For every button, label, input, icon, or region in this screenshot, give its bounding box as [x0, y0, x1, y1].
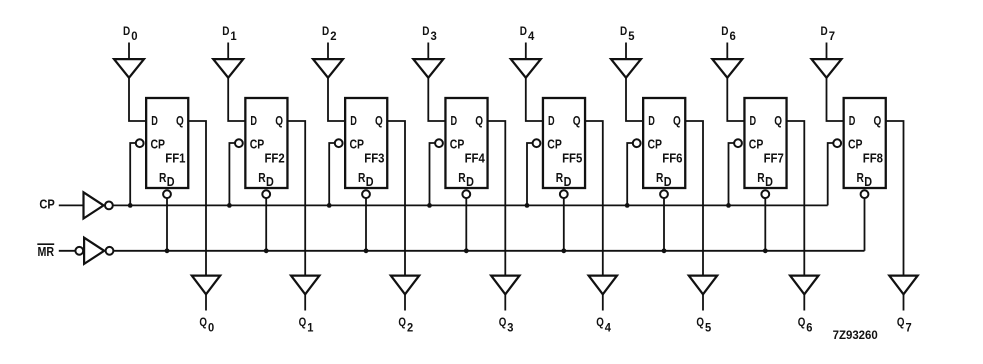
svg-text:R: R	[358, 171, 365, 185]
svg-text:CP: CP	[547, 137, 562, 151]
input buffer on D6	[712, 59, 742, 78]
wire output buffer to Q0 label	[205, 294, 207, 310]
svg-text:0: 0	[131, 31, 137, 43]
svg-text:D: D	[520, 26, 527, 38]
inversion bubble at CP pin of FF1	[136, 139, 144, 147]
wire Q pin of FF1 to output buffer	[188, 121, 206, 276]
junction CP rail / FF2	[227, 203, 232, 208]
svg-text:CP: CP	[749, 137, 764, 151]
svg-text:D: D	[664, 175, 672, 189]
inversion bubble at CP pin of FF5	[533, 139, 541, 147]
svg-text:Q: Q	[596, 317, 604, 329]
input buffer on D2	[313, 59, 343, 78]
svg-text:D: D	[250, 114, 257, 128]
svg-text:CP: CP	[648, 137, 663, 151]
svg-text:D: D	[151, 114, 158, 128]
output buffer on Q4	[589, 276, 617, 295]
wire RD pin of FF8 to MR rail	[864, 198, 866, 251]
wire CP rail to CP pin of FF2	[229, 143, 235, 205]
svg-text:D: D	[466, 175, 474, 189]
svg-text:D: D	[123, 26, 130, 38]
svg-text:Q: Q	[398, 317, 406, 329]
wire output buffer to Q1 label	[304, 294, 306, 310]
wire CP rail to CP pin of FF1	[130, 143, 136, 205]
wire CP rail to CP pin of FF3	[329, 143, 335, 205]
svg-text:FF6: FF6	[662, 151, 682, 165]
inversion bubble at RD pin of FF2	[262, 190, 270, 198]
wire CP rail to CP pin of FF8	[828, 143, 834, 205]
inversion bubble at CP pin of FF6	[633, 139, 641, 147]
output buffer on Q0	[192, 276, 220, 295]
svg-text:R: R	[857, 171, 864, 185]
wire CP rail to CP pin of FF6	[627, 143, 633, 205]
svg-text:0: 0	[208, 322, 214, 334]
input label MR (active low, overbar)	[37, 243, 54, 245]
svg-text:3: 3	[507, 322, 513, 334]
svg-text:FF4: FF4	[465, 151, 485, 165]
wire RD pin of FF1 to MR rail	[166, 198, 168, 251]
svg-text:D: D	[750, 114, 757, 128]
svg-text:R: R	[458, 171, 465, 185]
output buffer on Q3	[491, 276, 519, 295]
wire RD pin of FF6 to MR rail	[663, 198, 665, 251]
svg-text:Q: Q	[696, 317, 704, 329]
wire Q pin of FF7 to output buffer	[786, 121, 804, 276]
output buffer on Q2	[391, 276, 419, 295]
wire CP rail to CP pin of FF5	[527, 143, 533, 205]
junction CP rail / FF6	[625, 203, 630, 208]
svg-text:D: D	[821, 26, 828, 38]
svg-text:Q: Q	[176, 114, 184, 128]
wire Q pin of FF6 to output buffer	[685, 121, 703, 276]
wire input buffer to D pin of FF3	[328, 78, 346, 121]
wire Q pin of FF8 to output buffer	[886, 121, 904, 276]
wire CP input to inverter	[59, 204, 84, 206]
svg-text:Q: Q	[475, 114, 483, 128]
junction CP rail / FF7	[726, 203, 731, 208]
output buffer on Q6	[790, 276, 818, 295]
wire RD pin of FF4 to MR rail	[465, 198, 467, 251]
inversion bubble at CP pin of FF7	[734, 139, 742, 147]
svg-text:D: D	[350, 114, 357, 128]
svg-text:R: R	[258, 171, 265, 185]
output buffer on Q7	[889, 276, 917, 295]
wire D7 label to input buffer	[826, 43, 828, 60]
flip-flop FF7 outline	[744, 98, 786, 188]
inverter on CP line	[84, 192, 104, 218]
svg-text:R: R	[656, 171, 663, 185]
svg-text:Q: Q	[897, 317, 905, 329]
svg-text:CP: CP	[151, 137, 166, 151]
wire output buffer to Q4 label	[602, 294, 604, 310]
svg-text:7Z93260: 7Z93260	[833, 330, 878, 342]
junction CP rail / FF1	[128, 203, 133, 208]
wire input buffer to D pin of FF7	[727, 78, 745, 121]
junction CP rail / FF5	[525, 203, 530, 208]
flip-flop FF4 outline	[445, 98, 487, 188]
wire D2 label to input buffer	[327, 43, 329, 60]
svg-text:5: 5	[628, 31, 635, 43]
wire RD pin of FF7 to MR rail	[764, 198, 766, 251]
svg-text:Q: Q	[774, 114, 782, 128]
svg-text:2: 2	[407, 322, 413, 334]
junction MR rail / FF1	[165, 248, 170, 253]
input buffer on D7	[812, 59, 842, 78]
wire internal MR rail	[113, 250, 864, 252]
wire CP rail to CP pin of FF7	[729, 143, 735, 205]
svg-text:MR: MR	[38, 245, 55, 259]
svg-text:D: D	[864, 175, 872, 189]
flip-flop FF6 outline	[643, 98, 685, 188]
wire input buffer to D pin of FF5	[526, 78, 544, 121]
svg-text:Q: Q	[673, 114, 681, 128]
wire D6 label to input buffer	[726, 43, 728, 60]
svg-text:1: 1	[307, 322, 314, 334]
inversion bubble at MR inverter input	[75, 247, 83, 255]
inversion bubble at CP pin of FF4	[435, 139, 443, 147]
junction MR rail / FF3	[364, 248, 369, 253]
svg-text:FF8: FF8	[863, 151, 883, 165]
svg-text:D: D	[765, 175, 773, 189]
wire input buffer to D pin of FF6	[626, 78, 644, 121]
svg-text:3: 3	[431, 31, 437, 43]
svg-text:4: 4	[528, 31, 535, 43]
svg-text:D: D	[451, 114, 458, 128]
svg-text:Q: Q	[375, 114, 383, 128]
svg-text:7: 7	[906, 322, 912, 334]
wire MR input to inverter	[59, 250, 76, 252]
svg-text:CP: CP	[39, 198, 54, 212]
svg-text:FF5: FF5	[562, 151, 582, 165]
svg-text:Q: Q	[874, 114, 882, 128]
svg-text:Q: Q	[199, 317, 207, 329]
wire output buffer to Q6 label	[803, 294, 805, 310]
inverter on MR line	[84, 238, 104, 264]
wire D1 label to input buffer	[227, 43, 229, 60]
flip-flop FF3 outline	[345, 98, 387, 188]
inversion bubble at RD pin of FF6	[660, 190, 668, 198]
svg-text:Q: Q	[798, 317, 806, 329]
junction CP rail / FF3	[327, 203, 332, 208]
wire RD pin of FF5 to MR rail	[563, 198, 565, 251]
svg-text:2: 2	[330, 31, 336, 43]
svg-text:D: D	[422, 26, 429, 38]
svg-text:D: D	[564, 175, 572, 189]
svg-text:R: R	[556, 171, 563, 185]
wire D0 label to input buffer	[128, 43, 130, 60]
flip-flop FF5 outline	[543, 98, 585, 188]
wire D5 label to input buffer	[625, 43, 627, 60]
svg-text:Q: Q	[299, 317, 307, 329]
wire Q pin of FF5 to output buffer	[585, 121, 603, 276]
output buffer on Q5	[689, 276, 717, 295]
svg-text:D: D	[222, 26, 229, 38]
svg-text:D: D	[648, 114, 655, 128]
wire RD pin of FF2 to MR rail	[265, 198, 267, 251]
wire input buffer to D pin of FF8	[827, 78, 845, 121]
wire Q pin of FF2 to output buffer	[287, 121, 305, 276]
output buffer on Q1	[291, 276, 319, 295]
svg-text:FF1: FF1	[165, 151, 185, 165]
flip-flop FF2 outline	[245, 98, 287, 188]
svg-text:D: D	[167, 175, 175, 189]
inversion bubble at RD pin of FF8	[861, 190, 869, 198]
wire RD pin of FF3 to MR rail	[365, 198, 367, 251]
inversion bubble at RD pin of FF5	[560, 190, 568, 198]
wire input buffer to D pin of FF2	[228, 78, 246, 121]
junction MR rail / FF7	[763, 248, 768, 253]
svg-text:6: 6	[730, 31, 736, 43]
inversion bubble at CP pin of FF2	[235, 139, 243, 147]
wire output buffer to Q2 label	[404, 294, 406, 310]
svg-text:4: 4	[605, 322, 612, 334]
junction MR rail / FF5	[561, 248, 566, 253]
svg-text:D: D	[322, 26, 329, 38]
svg-text:D: D	[620, 26, 627, 38]
svg-text:CP: CP	[848, 137, 863, 151]
wire Q pin of FF4 to output buffer	[487, 121, 505, 276]
inversion bubble at RD pin of FF1	[163, 190, 171, 198]
svg-text:D: D	[721, 26, 728, 38]
svg-text:7: 7	[829, 31, 835, 43]
inversion bubble at CP inverter output	[105, 202, 113, 210]
junction MR rail / FF6	[662, 248, 667, 253]
wire internal CP rail	[113, 204, 828, 206]
svg-text:Q: Q	[499, 317, 507, 329]
svg-text:Q: Q	[573, 114, 581, 128]
svg-text:R: R	[757, 171, 764, 185]
input buffer on D5	[611, 59, 641, 78]
inversion bubble at CP pin of FF3	[335, 139, 343, 147]
svg-text:CP: CP	[450, 137, 465, 151]
svg-text:Q: Q	[275, 114, 283, 128]
input buffer on D1	[213, 59, 243, 78]
svg-text:R: R	[159, 171, 166, 185]
inversion bubble at RD pin of FF3	[362, 190, 370, 198]
svg-text:FF2: FF2	[265, 151, 285, 165]
svg-text:D: D	[266, 175, 274, 189]
inversion bubble at RD pin of FF7	[761, 190, 769, 198]
input buffer on D3	[413, 59, 443, 78]
svg-text:5: 5	[705, 322, 712, 334]
svg-text:CP: CP	[350, 137, 365, 151]
wire D3 label to input buffer	[427, 43, 429, 60]
svg-text:6: 6	[806, 322, 812, 334]
svg-text:D: D	[849, 114, 856, 128]
wire input buffer to D pin of FF4	[428, 78, 446, 121]
svg-text:1: 1	[230, 31, 237, 43]
wire D4 label to input buffer	[525, 43, 527, 60]
wire Q pin of FF3 to output buffer	[387, 121, 405, 276]
wire CP rail to CP pin of FF4	[430, 143, 436, 205]
input buffer on D0	[114, 59, 144, 78]
junction CP rail / FF4	[427, 203, 432, 208]
flip-flop FF1 outline	[146, 98, 188, 188]
junction MR rail / FF2	[264, 248, 269, 253]
wire output buffer to Q5 label	[702, 294, 704, 310]
inversion bubble at RD pin of FF4	[462, 190, 470, 198]
svg-text:CP: CP	[250, 137, 265, 151]
inversion bubble at MR inverter output	[106, 247, 114, 255]
svg-text:D: D	[548, 114, 555, 128]
wire output buffer to Q7 label	[903, 294, 905, 310]
svg-text:FF3: FF3	[364, 151, 384, 165]
input buffer on D4	[511, 59, 541, 78]
flip-flop FF8 outline	[844, 98, 886, 188]
svg-text:FF7: FF7	[764, 151, 784, 165]
junction MR rail / FF4	[464, 248, 469, 253]
wire output buffer to Q3 label	[504, 294, 506, 310]
inversion bubble at CP pin of FF8	[833, 139, 841, 147]
wire input buffer to D pin of FF1	[129, 78, 147, 121]
svg-text:D: D	[366, 175, 374, 189]
